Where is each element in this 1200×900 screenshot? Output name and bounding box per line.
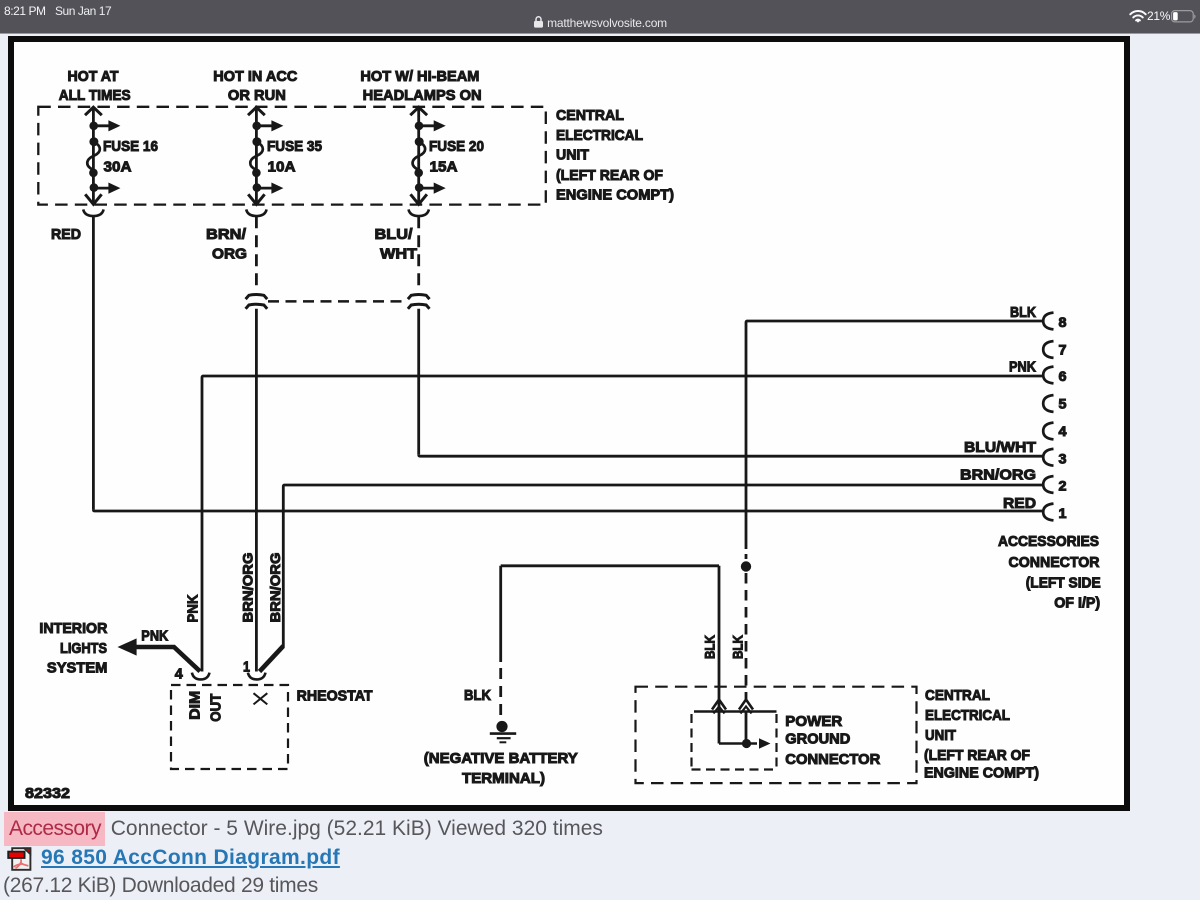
in-line connector on BLU/WHT wire — [408, 295, 430, 300]
wire: PNK from accessories connector pin 6 down to rheostat pin 4 — [202, 376, 1044, 672]
accessories connector pin 1 — [1043, 504, 1053, 521]
svg-text:7: 7 — [1059, 343, 1067, 358]
interior lights system feed arrow (PNK) — [118, 638, 137, 655]
battery icon — [1171, 10, 1196, 23]
svg-text:HOT W/ HI-BEAM: HOT W/ HI-BEAM — [360, 68, 479, 85]
svg-text:RED: RED — [51, 226, 81, 243]
wire: heavy diagonal into rheostat pin 1 — [260, 646, 284, 672]
junction dot on BLK wire — [741, 561, 751, 571]
svg-text:DIM: DIM — [186, 691, 203, 720]
svg-text:10A: 10A — [268, 159, 296, 176]
central electrical unit (bottom) dashed box — [636, 687, 917, 783]
svg-text:UNIT: UNIT — [925, 727, 956, 744]
junction dot with branch arrow (top) — [252, 122, 261, 131]
wire: BLK from accessories connector pin 8 down to power ground connector — [746, 321, 1044, 549]
wire: feed into fuse FUSE 16 — [92, 108, 95, 205]
accessories connector pin 4 — [1043, 423, 1053, 440]
junction dot with branch arrow (top) — [415, 122, 424, 131]
svg-text:HOT IN ACC: HOT IN ACC — [213, 68, 297, 85]
fuse FUSE 16 30A symbol — [89, 137, 98, 146]
fuse FUSE 20 15A symbol — [415, 137, 424, 146]
rheostat dashed box — [171, 685, 288, 769]
svg-text:4: 4 — [1059, 424, 1068, 439]
arrow into CEU box top, fuse FUSE 35 column — [248, 107, 265, 115]
wire: BLU/WHT dashed from fuse 20 to in-line connector — [417, 216, 420, 291]
connector half below CEU box — [246, 209, 266, 216]
svg-text:BLK: BLK — [1010, 304, 1036, 321]
caption line: pdf link — [41, 846, 340, 870]
svg-text:BRN/ORG: BRN/ORG — [267, 552, 283, 622]
power ground connector inner box — [694, 710, 777, 712]
svg-text:BLK: BLK — [729, 635, 745, 659]
central electrical unit (top) dashed box — [38, 107, 546, 205]
connector half below CEU box — [409, 209, 429, 216]
svg-text:ORG: ORG — [212, 246, 247, 263]
accessories connector pin 8 — [1043, 313, 1053, 330]
accessories connector pin 3 — [1043, 449, 1053, 466]
arrow into CEU box top, fuse FUSE 20 column — [410, 107, 427, 115]
svg-text:30A: 30A — [104, 159, 132, 176]
rheostat pin 1 connector cup — [248, 673, 266, 680]
svg-text:(LEFT REAR OF: (LEFT REAR OF — [556, 167, 663, 184]
svg-text:(LEFT SIDE: (LEFT SIDE — [1026, 575, 1101, 592]
wire: BRN/ORG dashed from fuse 35 to in-line connector — [255, 216, 258, 291]
junction dot with branch arrow (bottom) — [90, 183, 99, 192]
svg-text:82332: 82332 — [25, 785, 70, 802]
svg-text:FUSE 35: FUSE 35 — [267, 138, 322, 155]
svg-text:3: 3 — [1059, 451, 1068, 466]
svg-text:1: 1 — [1059, 506, 1068, 521]
svg-text:RHEOSTAT: RHEOSTAT — [297, 688, 373, 705]
svg-text:ACCESSORIES: ACCESSORIES — [998, 533, 1099, 550]
svg-text:BLK: BLK — [464, 687, 491, 704]
svg-text:(NEGATIVE BATTERY: (NEGATIVE BATTERY — [424, 750, 578, 767]
svg-text:CENTRAL: CENTRAL — [925, 687, 990, 704]
accessories connector pin 5 — [1043, 395, 1053, 412]
arrow out of CEU box bottom — [85, 194, 101, 204]
svg-text:FUSE 20: FUSE 20 — [429, 138, 484, 155]
svg-text:PNK: PNK — [1009, 359, 1036, 376]
svg-text:ALL TIMES: ALL TIMES — [59, 87, 131, 104]
accessories connector pin 7 — [1043, 341, 1053, 358]
svg-text:SYSTEM: SYSTEM — [47, 660, 108, 677]
wire: feed into fuse FUSE 20 — [417, 108, 420, 205]
wire: BLU/WHT from in-line connector to accessories connector pin 3 — [417, 309, 420, 455]
arrow out of CEU box bottom — [248, 194, 264, 204]
junction dot with branch arrow (bottom) — [253, 183, 262, 192]
ground: negative battery terminal — [496, 721, 507, 732]
svg-text:PNK: PNK — [185, 594, 202, 622]
wires inside power ground connector — [718, 712, 721, 744]
svg-text:RED: RED — [1003, 495, 1036, 512]
svg-text:GROUND: GROUND — [785, 731, 850, 748]
wire: BRN/ORG branch from accessories connector pin 2 to rheostat pin 1 — [283, 485, 1044, 647]
svg-text:FUSE 16: FUSE 16 — [103, 138, 158, 155]
iPad status bar — [0, 0, 1200, 34]
svg-text:OF I/P): OF I/P) — [1054, 595, 1100, 612]
svg-text:BRN/: BRN/ — [206, 226, 247, 243]
wire: BRN/ORG from in-line connector to rheostat pin 1 — [255, 309, 258, 672]
wifi icon — [1129, 10, 1147, 23]
wire: dashed jumper between in-line connectors — [268, 300, 408, 303]
svg-text:ELECTRICAL: ELECTRICAL — [556, 127, 643, 144]
connector half below CEU box — [83, 209, 103, 216]
junction dot with branch arrow (bottom) — [415, 183, 424, 192]
svg-text:1: 1 — [243, 658, 250, 675]
svg-text:ELECTRICAL: ELECTRICAL — [925, 707, 1010, 724]
svg-text:15A: 15A — [430, 159, 458, 176]
svg-text:CONNECTOR: CONNECTOR — [785, 751, 880, 768]
svg-text:HOT AT: HOT AT — [68, 68, 119, 85]
svg-text:6: 6 — [1059, 369, 1068, 384]
junction dot inside power ground connector — [742, 739, 751, 748]
arrow out of CEU box bottom — [411, 194, 427, 204]
in-line connector on BRN/ORG wire — [246, 295, 268, 300]
svg-text:BRN/ORG: BRN/ORG — [960, 467, 1036, 484]
wire: feed into fuse FUSE 35 — [255, 108, 258, 205]
svg-text:(LEFT REAR OF: (LEFT REAR OF — [924, 747, 1030, 764]
svg-text:8: 8 — [1059, 315, 1068, 330]
svg-text:UNIT: UNIT — [556, 147, 589, 164]
junction dot with branch arrow (top) — [89, 122, 98, 131]
rheostat pin 4 connector cup — [192, 673, 210, 680]
svg-text:OR RUN: OR RUN — [228, 87, 286, 104]
svg-text:4: 4 — [175, 666, 184, 683]
svg-text:INTERIOR: INTERIOR — [39, 620, 107, 637]
svg-text:5: 5 — [1059, 397, 1068, 412]
svg-text:CONNECTOR: CONNECTOR — [1009, 554, 1100, 571]
arrow into CEU box top, fuse FUSE 16 column — [85, 107, 102, 115]
svg-text:PNK: PNK — [141, 628, 168, 645]
accessories connector pin 6 — [1043, 367, 1053, 384]
svg-text:CENTRAL: CENTRAL — [556, 107, 624, 124]
svg-text:BLK: BLK — [702, 635, 718, 659]
svg-text:POWER: POWER — [785, 713, 842, 730]
svg-text:WHT: WHT — [380, 246, 417, 263]
svg-text:HEADLAMPS ON: HEADLAMPS ON — [363, 87, 482, 104]
accessories connector pin 2 — [1043, 476, 1053, 493]
rheostat X terminal mark — [254, 693, 268, 704]
caption line: download count — [3, 874, 318, 898]
svg-text:ENGINE COMPT): ENGINE COMPT) — [556, 187, 674, 204]
pdf attachment icon — [7, 846, 33, 872]
svg-text:TERMINAL): TERMINAL) — [462, 770, 545, 787]
fuse FUSE 35 10A symbol — [252, 137, 261, 146]
svg-text:ENGINE COMPT): ENGINE COMPT) — [924, 765, 1039, 782]
svg-text:BLU/WHT: BLU/WHT — [964, 439, 1036, 456]
wire: RED from fuse 16 to accessories connector pin 1 — [92, 216, 95, 510]
svg-text:2: 2 — [1059, 479, 1067, 494]
svg-text:BLU/: BLU/ — [375, 226, 414, 243]
caption line: attachment name — [4, 817, 603, 841]
arrow terminals into power ground connector — [712, 700, 726, 710]
svg-text:BRN/ORG: BRN/ORG — [240, 552, 256, 622]
wire: BLK from power ground connector to negative battery terminal — [718, 566, 721, 711]
lock icon and site url — [0, 16, 1200, 30]
svg-text:OUT: OUT — [208, 694, 225, 722]
svg-text:LIGHTS: LIGHTS — [60, 640, 107, 657]
